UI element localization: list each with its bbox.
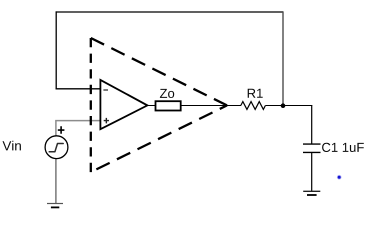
dashed ideal-opamp boundary left edge	[90, 38, 92, 172]
wire feedback right vertical	[282, 12, 284, 106]
stray blue dot mark	[337, 175, 342, 180]
plus polarity mark of source	[58, 126, 65, 134]
wire down to capacitor	[311, 105, 313, 144]
wire feedback left vertical	[55, 11, 57, 89]
wire source to ground (gray net)	[55, 158, 57, 203]
wire capacitor to ground	[311, 152, 313, 191]
resistor Zo (box)	[156, 101, 181, 110]
op-amp U1 triangle	[100, 80, 147, 129]
label C1 1uF	[322, 143, 364, 152]
wire noninverting input (gray net)	[56, 121, 101, 137]
wire feedback top horizontal	[56, 11, 284, 13]
op-amp plus pin label	[104, 118, 109, 124]
dashed ideal-opamp boundary top edge	[91, 38, 227, 105]
dashed ideal-opamp boundary bottom edge	[91, 105, 227, 172]
capacitor C1 bottom plate	[303, 151, 321, 153]
label Vin	[3, 141, 21, 151]
label Zo	[160, 89, 174, 98]
junction node dot	[281, 103, 286, 108]
voltage source ramp glyph	[49, 144, 63, 152]
capacitor C1 top plate	[303, 143, 321, 145]
wire R1 to capacitor branch	[265, 105, 312, 107]
op-amp minus pin label	[103, 89, 108, 91]
wire op-amp output to R1	[147, 105, 241, 107]
voltage source V1 circle	[45, 136, 68, 159]
wire inverting input	[56, 88, 101, 90]
label R1	[248, 89, 263, 98]
resistor R1 zigzag	[241, 102, 266, 110]
ground under source	[47, 204, 63, 208]
ground under capacitor	[303, 191, 320, 195]
